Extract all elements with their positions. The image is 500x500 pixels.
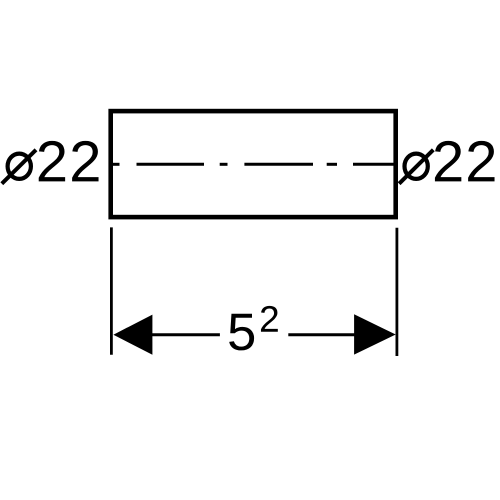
centerline dash segment 1 <box>113 163 120 166</box>
label left: diameter symbol circle <box>8 154 31 179</box>
extension line left <box>110 227 113 354</box>
dimension line right segment <box>288 333 356 336</box>
tube body outline <box>111 111 396 217</box>
centerline dash segment 2 <box>137 163 205 166</box>
centerline dash segment 3 <box>220 163 228 166</box>
centerline dash segment 5 <box>327 163 337 166</box>
centerline dash segment 6 <box>353 163 394 166</box>
label left: diameter symbol slash <box>2 150 36 184</box>
label right: digit 2 (second) <box>468 141 494 181</box>
label right: digit 2 (first) <box>435 141 461 181</box>
dimension digit 5 <box>229 314 254 351</box>
dimension superscript 2 <box>261 306 278 332</box>
extension line right <box>395 228 398 356</box>
centerline dash segment 4 <box>244 163 313 166</box>
arrowhead right <box>354 314 396 354</box>
label left: digit 2 (first) <box>39 141 65 181</box>
label right: diameter symbol circle <box>405 154 428 179</box>
label left: digit 2 (second) <box>72 141 98 181</box>
dimension line left segment <box>150 333 220 336</box>
arrowhead left <box>113 315 152 355</box>
label right: diameter symbol slash <box>399 150 433 184</box>
